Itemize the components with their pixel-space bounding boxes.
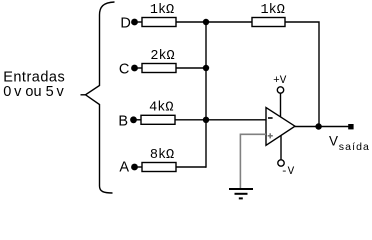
- wire R3 to bus and op-amp inverting input: [175, 119, 266, 121]
- wire R4 to bus corner: [176, 166, 206, 168]
- resistor R1 1k (input D): [142, 18, 176, 27]
- wire C to R2: [135, 67, 143, 69]
- feedback resistor R5 1k: [252, 18, 285, 27]
- output wire from op-amp: [295, 126, 351, 128]
- wire bus to feedback resistor: [206, 21, 252, 23]
- resistor R4 8k (input A): [142, 163, 176, 172]
- svg-text:8kΩ: 8kΩ: [150, 148, 174, 163]
- summing bus vertical wire: [205, 22, 207, 168]
- svg-text:B: B: [118, 113, 128, 129]
- plus sign non-inverting input: [268, 133, 273, 138]
- svg-text:+V: +V: [273, 75, 287, 87]
- wire R1 to bus: [176, 21, 206, 23]
- wire feedback resistor to output node: [285, 22, 319, 127]
- svg-text:A: A: [119, 160, 129, 176]
- +V terminal circle: [277, 87, 283, 93]
- brace for inputs: [81, 2, 115, 193]
- svg-text:4kΩ: 4kΩ: [149, 100, 173, 115]
- svg-text:C: C: [119, 61, 129, 77]
- svg-text:0 v ou 5 v: 0 v ou 5 v: [3, 84, 64, 100]
- svg-text:1kΩ: 1kΩ: [150, 3, 174, 18]
- minus sign inverting input: [268, 117, 273, 119]
- svg-text:-V: -V: [281, 166, 295, 178]
- svg-text:D: D: [120, 15, 130, 31]
- wire B to R3: [134, 119, 142, 121]
- ground: [229, 189, 253, 198]
- output terminal square: [348, 124, 353, 129]
- -V terminal circle: [278, 160, 284, 166]
- resistor R2 2k (input C): [142, 64, 176, 73]
- junction dot C row: [203, 65, 209, 71]
- -V pin wire: [280, 136, 282, 160]
- wire A to R4: [135, 166, 143, 168]
- op-amp U1 triangle: [266, 108, 295, 146]
- svg-text:saída: saída: [339, 141, 370, 153]
- svg-text:1kΩ: 1kΩ: [261, 3, 285, 18]
- junction dot B row / inverting input: [203, 117, 209, 123]
- svg-text:V: V: [329, 133, 338, 148]
- wire non-inverting input to ground (gray): [240, 134, 266, 188]
- svg-text:2kΩ: 2kΩ: [150, 49, 174, 64]
- wire R2 to bus: [176, 67, 206, 69]
- resistor R3 4k (input B): [141, 115, 175, 124]
- wire D to R1: [135, 21, 143, 23]
- output junction dot: [315, 123, 321, 129]
- +V pin wire: [280, 93, 282, 117]
- junction dot D row: [203, 19, 209, 25]
